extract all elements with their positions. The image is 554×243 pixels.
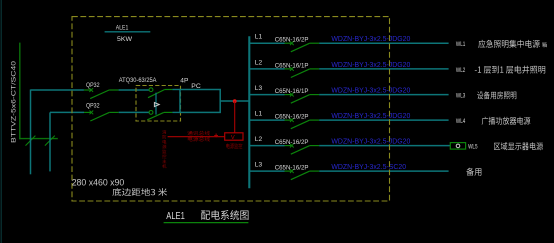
svg-text:L3: L3 bbox=[255, 85, 263, 92]
ATS blade bottom bbox=[147, 112, 164, 120]
load description row 3 bbox=[477, 91, 516, 99]
wire monitor bus (red) bbox=[168, 136, 225, 138]
label 底边距地3 米 bbox=[112, 188, 167, 196]
wire branch N2 horizontal bbox=[50, 111, 84, 113]
ATS contact circle bottom bbox=[149, 111, 153, 115]
svg-text:5KW: 5KW bbox=[117, 36, 133, 43]
wire branch 1 from busbar bbox=[249, 42, 284, 44]
svg-text:V: V bbox=[231, 135, 235, 141]
title 配电系统图 bbox=[201, 210, 248, 220]
feeder riser cable (incoming) bbox=[19, 43, 21, 140]
svg-text:C65N-16/2P: C65N-16/2P bbox=[275, 114, 309, 121]
svg-text:C65N-16/2P: C65N-16/2P bbox=[275, 139, 309, 146]
ATS linkage bar bbox=[155, 93, 157, 115]
riser tap slash 1 bbox=[26, 136, 36, 146]
load description row 1 bbox=[478, 40, 539, 48]
svg-text:ATQ30-63/25A: ATQ30-63/25A bbox=[119, 77, 157, 84]
ATS output top green bbox=[165, 89, 173, 91]
circuit breaker C65N-16/1P row 2 bbox=[285, 68, 292, 70]
load description row 5 bbox=[494, 142, 543, 150]
ATS output bottom green bbox=[164, 111, 173, 113]
wire branch 4 to load bbox=[319, 119, 448, 121]
riser tap slash 2 bbox=[45, 136, 55, 146]
socket symbol WL5 bbox=[450, 143, 465, 150]
circuit breaker QP32 (normal supply) bbox=[84, 89, 91, 91]
svg-text:WDZN-BYJ-3x2.5-JDG20: WDZN-BYJ-3x2.5-JDG20 bbox=[331, 36, 410, 43]
wire branch N1 horizontal bbox=[31, 89, 84, 91]
ATS enclosure dashed box bbox=[136, 86, 181, 122]
svg-text:C65N-16/1P: C65N-16/1P bbox=[275, 62, 309, 69]
title underline bbox=[164, 222, 249, 224]
label 电源监控 bbox=[226, 143, 242, 148]
wire branch 2 to load bbox=[319, 68, 448, 70]
load description row 2 bbox=[475, 66, 545, 74]
svg-text:L1: L1 bbox=[255, 111, 263, 118]
circuit breaker C65N-16/1P row 3 bbox=[285, 94, 292, 96]
load description row 4 bbox=[482, 117, 531, 125]
wire branch 6 to load bbox=[319, 170, 448, 172]
wire branch 1 to load bbox=[319, 42, 448, 44]
polarity mark + bbox=[214, 134, 218, 138]
svg-text:280 x460 x90: 280 x460 x90 bbox=[72, 177, 125, 187]
svg-text:L2: L2 bbox=[255, 59, 263, 66]
svg-text:4P: 4P bbox=[180, 78, 189, 85]
ATS blade top bbox=[148, 90, 165, 98]
svg-text:C65N-16/2P: C65N-16/2P bbox=[275, 37, 309, 44]
svg-text:WDZN-BYJ-3x2.5-JDG20: WDZN-BYJ-3x2.5-JDG20 bbox=[331, 139, 410, 146]
wire ATS bottom to PC box bbox=[172, 111, 180, 113]
svg-text:WL1: WL1 bbox=[456, 41, 466, 48]
label monitor bus bottom bbox=[188, 137, 210, 142]
circuit breaker QP32 (standby supply) bbox=[84, 111, 91, 113]
wire PC box to busbar bbox=[220, 100, 249, 102]
svg-text:L2: L2 bbox=[255, 136, 263, 143]
busbar vertical bbox=[248, 36, 250, 188]
wire ATS top to PC box bbox=[172, 89, 180, 91]
wire branch 3 from busbar bbox=[249, 94, 284, 96]
wire branch 3 to load bbox=[319, 94, 448, 96]
load description row 6 bbox=[466, 168, 481, 176]
panel boundary dashed box bbox=[72, 17, 390, 201]
header fraction bar bbox=[105, 31, 151, 33]
viewport border line bbox=[0, 0, 2, 243]
svg-text:WL5: WL5 bbox=[468, 144, 478, 151]
circuit breaker C65N-16/2P row 4 bbox=[285, 119, 292, 121]
ATS actuator arrow bbox=[154, 103, 159, 107]
wire branch 2 from busbar bbox=[249, 68, 284, 70]
svg-text:WDZN-BYJ-3x2.5-SC20: WDZN-BYJ-3x2.5-SC20 bbox=[331, 164, 406, 171]
svg-text:QP32: QP32 bbox=[86, 103, 100, 110]
svg-text:QP32: QP32 bbox=[86, 82, 100, 89]
svg-text:WL3: WL3 bbox=[456, 93, 466, 100]
svg-text:L1: L1 bbox=[255, 34, 263, 41]
svg-text:WL4: WL4 bbox=[456, 118, 466, 125]
svg-text:WDZN-BYJ-3x2.5-JDG20: WDZN-BYJ-3x2.5-JDG20 bbox=[331, 88, 410, 95]
svg-text:C65N-16/1P: C65N-16/1P bbox=[275, 88, 309, 95]
circuit breaker C65N-16/2P row 1 bbox=[285, 42, 292, 44]
svg-text:ALE1: ALE1 bbox=[166, 211, 185, 222]
svg-text:WDZN-BYJ-3x2.5-JDG20: WDZN-BYJ-3x2.5-JDG20 bbox=[331, 62, 410, 69]
label 至消防电源监控主机 (vertical) bbox=[162, 130, 166, 134]
wire riser N1 vertical bbox=[30, 90, 32, 175]
junction dot main bbox=[233, 99, 237, 103]
circuit breaker C65N-16/2P row 5 bbox=[285, 145, 292, 147]
svg-text:ALE1: ALE1 bbox=[116, 25, 129, 32]
svg-text:BTTVZ-5x6-CT/SC40: BTTVZ-5x6-CT/SC40 bbox=[12, 60, 18, 143]
wire branch 5 from busbar bbox=[249, 145, 284, 147]
label monitor bus top bbox=[187, 131, 210, 136]
wire riser N2 vertical bbox=[49, 112, 51, 171]
svg-text:C65N-16/2P: C65N-16/2P bbox=[275, 165, 309, 172]
voltage sensor box bbox=[225, 133, 243, 140]
PC distribution box outline bbox=[180, 90, 220, 113]
svg-text:WL2: WL2 bbox=[456, 67, 466, 74]
svg-text:L3: L3 bbox=[255, 162, 263, 169]
wire voltage tap (red) bbox=[234, 101, 236, 133]
wire feeder horizontal bbox=[19, 138, 58, 140]
wire branch 4 from busbar bbox=[249, 119, 284, 121]
wire branch 5 to load bbox=[319, 145, 450, 147]
circuit breaker C65N-16/2P row 6 bbox=[285, 170, 292, 172]
wire branch 6 from busbar bbox=[249, 170, 284, 172]
ATS contact circle top bbox=[149, 88, 153, 92]
svg-text:WDZN-BYJ-3x2.5-JDG20: WDZN-BYJ-3x2.5-JDG20 bbox=[331, 113, 410, 120]
